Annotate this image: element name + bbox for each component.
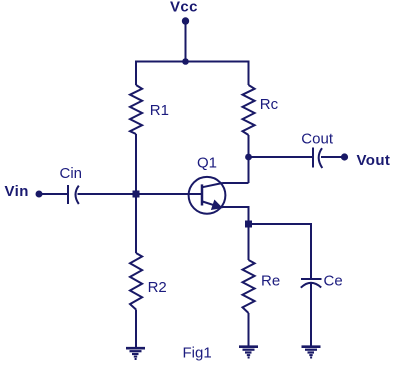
node collector junction — [245, 154, 252, 161]
wire Cout to Vout — [321, 156, 345, 158]
capacitor Ce — [301, 279, 322, 288]
wire R1 to base node — [135, 134, 137, 194]
svg-text:Fig1: Fig1 — [183, 345, 212, 362]
node Vout terminal dot — [341, 153, 348, 160]
wire emitter node to Ce — [249, 224, 312, 280]
resistor R2 — [130, 253, 142, 310]
wire top rail — [135, 61, 250, 63]
wire emitter — [220, 207, 249, 224]
wire base — [136, 193, 201, 195]
node Vin terminal dot — [36, 191, 43, 198]
wire Vcc stem — [185, 21, 187, 62]
wire Re to ground — [248, 313, 250, 347]
svg-text:Vin: Vin — [5, 183, 29, 200]
wire Cin to base node — [78, 193, 137, 195]
resistor Rc — [243, 85, 255, 135]
wire Rc to collector — [248, 135, 250, 183]
svg-text:Cout: Cout — [301, 131, 334, 148]
capacitor Cin — [68, 185, 79, 204]
node emitter junction — [245, 221, 252, 228]
node junction Vcc rail — [182, 58, 189, 65]
svg-text:Vcc: Vcc — [170, 0, 198, 16]
transistor Q1 — [189, 177, 226, 214]
wire collector horizontal — [223, 182, 249, 184]
wire Vin to Cin — [39, 193, 67, 195]
svg-text:Ce: Ce — [324, 273, 343, 290]
svg-text:Vout: Vout — [357, 152, 391, 169]
node Vcc terminal dot — [182, 17, 189, 24]
svg-text:Cin: Cin — [60, 165, 83, 182]
resistor R1 — [130, 85, 142, 134]
capacitor Cout — [313, 148, 322, 169]
wire collector node to Cout — [249, 156, 313, 158]
svg-text:R2: R2 — [148, 279, 167, 296]
svg-text:Re: Re — [261, 273, 280, 290]
wire base node to R2 — [135, 194, 137, 253]
wire right branch upper — [248, 61, 250, 86]
wire R2 to ground — [135, 310, 137, 349]
svg-text:Q1: Q1 — [197, 155, 217, 172]
ground under R2 — [126, 348, 145, 359]
ground under Re — [239, 347, 258, 358]
ground under Ce — [302, 347, 321, 358]
svg-text:Rc: Rc — [260, 96, 279, 113]
resistor Re — [243, 260, 255, 313]
wire Ce to ground — [310, 283, 312, 347]
wire left branch upper — [135, 61, 137, 86]
node base junction — [133, 191, 140, 198]
wire emitter node to Re — [248, 224, 250, 260]
svg-text:R1: R1 — [150, 102, 169, 119]
